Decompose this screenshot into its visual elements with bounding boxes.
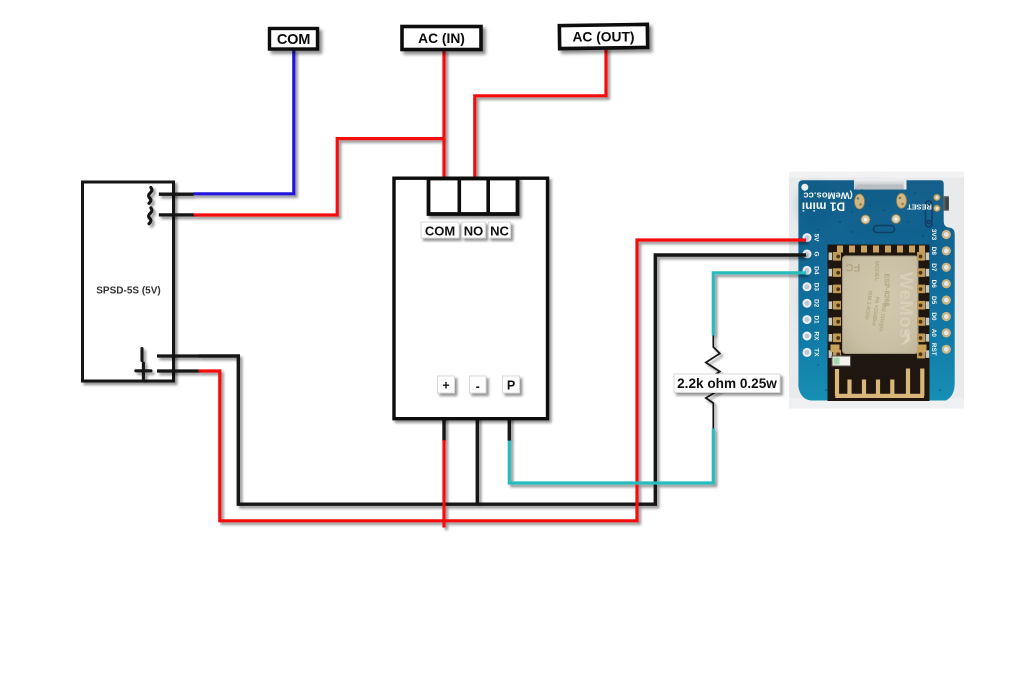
svg-text:COM: COM bbox=[425, 224, 455, 239]
svg-text:A0: A0 bbox=[930, 329, 937, 338]
svg-text:D1: D1 bbox=[812, 316, 819, 325]
svg-text:-: - bbox=[476, 380, 480, 394]
svg-text:(WeMos.cc: (WeMos.cc bbox=[803, 189, 852, 200]
svg-text:D3: D3 bbox=[812, 283, 819, 292]
svg-text:D2: D2 bbox=[812, 299, 819, 308]
svg-text:+: + bbox=[442, 379, 449, 393]
svg-text:AC (IN): AC (IN) bbox=[418, 31, 465, 46]
svg-text:COM: COM bbox=[277, 32, 310, 48]
svg-text:D6: D6 bbox=[930, 280, 937, 289]
svg-text:D4: D4 bbox=[812, 266, 819, 275]
svg-text:AC (OUT): AC (OUT) bbox=[572, 29, 634, 44]
svg-text:3V3: 3V3 bbox=[930, 229, 937, 241]
svg-text:ESP-8266: ESP-8266 bbox=[883, 274, 892, 307]
svg-text:RESET: RESET bbox=[907, 203, 932, 212]
svg-text:NC: NC bbox=[490, 224, 509, 239]
svg-text:P: P bbox=[507, 379, 515, 393]
svg-text:RX: RX bbox=[812, 332, 819, 342]
svg-text:SPSD-5S (5V): SPSD-5S (5V) bbox=[96, 286, 160, 297]
svg-text:2.2k ohm 0.25w: 2.2k ohm 0.25w bbox=[677, 376, 777, 391]
svg-text:5V: 5V bbox=[812, 234, 819, 243]
svg-text:D5: D5 bbox=[930, 296, 937, 305]
svg-text:WeMos: WeMos bbox=[896, 272, 917, 339]
svg-text:FC: FC bbox=[846, 261, 861, 273]
svg-text:G: G bbox=[812, 252, 819, 257]
svg-text:D8: D8 bbox=[930, 247, 937, 256]
svg-text:RST: RST bbox=[930, 343, 937, 356]
svg-text:MODEL: MODEL bbox=[873, 261, 879, 282]
svg-text:TX: TX bbox=[812, 348, 819, 357]
svg-text:D7: D7 bbox=[930, 263, 937, 272]
svg-text:NO: NO bbox=[464, 224, 484, 239]
svg-text:D1 mini: D1 mini bbox=[802, 199, 845, 213]
svg-text:D0: D0 bbox=[930, 312, 937, 321]
